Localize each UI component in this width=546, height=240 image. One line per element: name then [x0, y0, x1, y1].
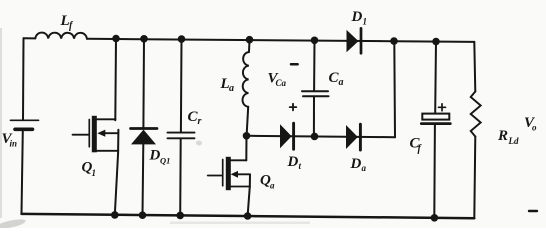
wire aux rail — [247, 136, 396, 137]
diode Dt — [280, 123, 294, 149]
svg-text:a: a — [270, 181, 275, 191]
node bottom rail Cf — [431, 214, 439, 222]
plus sign Cf — [439, 104, 446, 111]
capacitor Ca — [302, 40, 329, 136]
scan edge streak left — [0, 28, 2, 218]
svg-text:in: in — [10, 139, 18, 149]
svg-text:a: a — [362, 163, 367, 173]
wire DQ1 upper — [142, 39, 145, 127]
resistor RLd — [471, 92, 481, 137]
label Q1 — [82, 160, 97, 179]
wire Q1 source vertical — [115, 130, 119, 215]
capacitor Cr — [168, 133, 195, 139]
wire Qa drain vertical — [245, 136, 247, 161]
wire RLd upper — [474, 42, 475, 92]
node bottom rail Q1 — [111, 211, 119, 219]
label Ca — [329, 70, 344, 88]
battery Vin — [11, 120, 39, 129]
diode DQ1 — [131, 129, 158, 145]
node top rail Cf — [432, 38, 440, 46]
wire RLd lower — [474, 137, 475, 219]
plus sign VCa — [290, 104, 297, 111]
minus sign output — [529, 210, 537, 212]
transistor Qa — [208, 157, 250, 190]
wire Cr upper — [180, 39, 183, 132]
wire Cr lower — [179, 139, 182, 215]
svg-text:R: R — [497, 128, 508, 144]
svg-text:1: 1 — [92, 168, 97, 178]
svg-text:Q1: Q1 — [160, 156, 170, 166]
capacitor Cf — [421, 114, 450, 124]
label VCa — [268, 71, 287, 89]
node bottom rail Qa — [244, 212, 252, 220]
scan smudge bottom — [170, 222, 310, 225]
inductor Lf — [35, 33, 87, 39]
label Lf — [60, 13, 75, 32]
scan speck — [196, 141, 202, 146]
label D1 — [351, 9, 368, 27]
svg-text:D: D — [287, 154, 299, 170]
wire aux riser — [393, 41, 396, 137]
node bottom rail Cr — [176, 212, 184, 220]
inductor La — [243, 40, 250, 136]
svg-text:D: D — [149, 148, 161, 164]
svg-text:o: o — [532, 123, 537, 133]
svg-text:Ld: Ld — [508, 136, 519, 146]
svg-text:1: 1 — [363, 17, 368, 27]
node bottom rail DQ1 — [139, 211, 147, 219]
node aux rail La — [243, 132, 251, 140]
node top rail DQ1 — [140, 35, 148, 43]
label Cr — [188, 109, 202, 127]
node top rail La — [246, 36, 254, 44]
wire DQ1 lower — [142, 145, 145, 216]
node aux rail Ca — [311, 133, 319, 141]
node top rail aux riser — [390, 37, 398, 45]
label Cf — [410, 136, 423, 155]
svg-text:a: a — [339, 77, 344, 88]
minus sign VCa — [291, 63, 298, 66]
wire top rail main segment — [87, 39, 474, 42]
node top rail Q1 — [112, 35, 120, 43]
label RLd — [497, 128, 519, 146]
svg-text:D: D — [350, 156, 362, 172]
wire Cf upper — [434, 42, 437, 113]
wire Cf lower — [433, 125, 436, 218]
wire Qa source vertical — [248, 174, 250, 216]
wire left edge upper — [22, 38, 25, 119]
node top rail Cr — [178, 35, 186, 43]
label Da — [350, 156, 367, 173]
transistor Q1 — [73, 116, 119, 153]
label Qa — [260, 173, 275, 191]
svg-text:r: r — [198, 116, 202, 127]
svg-text:Ca: Ca — [276, 78, 287, 88]
svg-text:a: a — [229, 83, 234, 94]
label La — [220, 76, 235, 94]
diode D1 — [347, 28, 362, 53]
scan smudge bottom-left — [0, 217, 26, 230]
wire Q1 drain vertical — [114, 39, 117, 121]
node top rail Ca — [311, 37, 319, 45]
label Vo — [524, 115, 537, 133]
wire bottom rail — [22, 214, 475, 218]
diode Da — [346, 124, 360, 150]
wire left edge lower — [22, 131, 23, 214]
label Dt — [287, 154, 302, 171]
label DQ1 — [149, 148, 171, 166]
wire top rail left segment — [24, 37, 36, 39]
label Vin — [2, 131, 18, 149]
svg-text:D: D — [351, 9, 363, 25]
